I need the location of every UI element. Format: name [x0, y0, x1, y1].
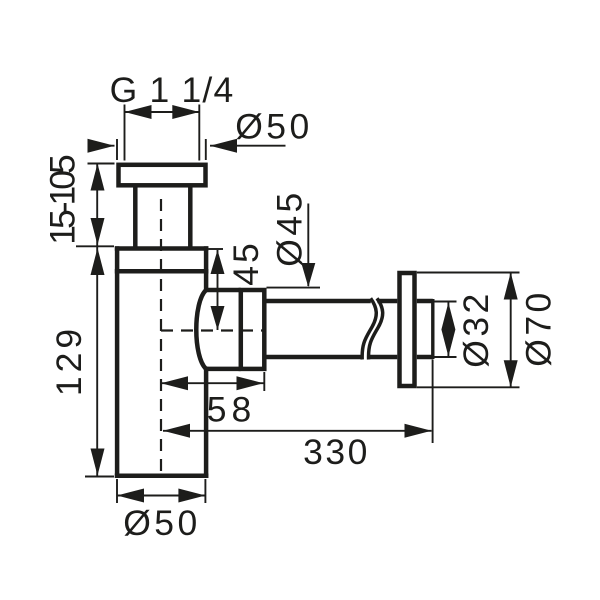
svg-text:330: 330	[303, 432, 370, 472]
svg-text:45: 45	[226, 240, 266, 286]
svg-text:Ø50: Ø50	[123, 503, 201, 543]
svg-text:Ø32: Ø32	[456, 290, 496, 368]
svg-text:Ø70: Ø70	[519, 289, 559, 367]
svg-text:15-105: 15-105	[43, 155, 83, 245]
svg-text:G 1 1/4: G 1 1/4	[110, 70, 235, 110]
svg-text:Ø50: Ø50	[235, 107, 313, 147]
svg-text:129: 129	[49, 325, 89, 396]
svg-text:58: 58	[207, 390, 257, 430]
svg-text:Ø45: Ø45	[270, 189, 310, 267]
